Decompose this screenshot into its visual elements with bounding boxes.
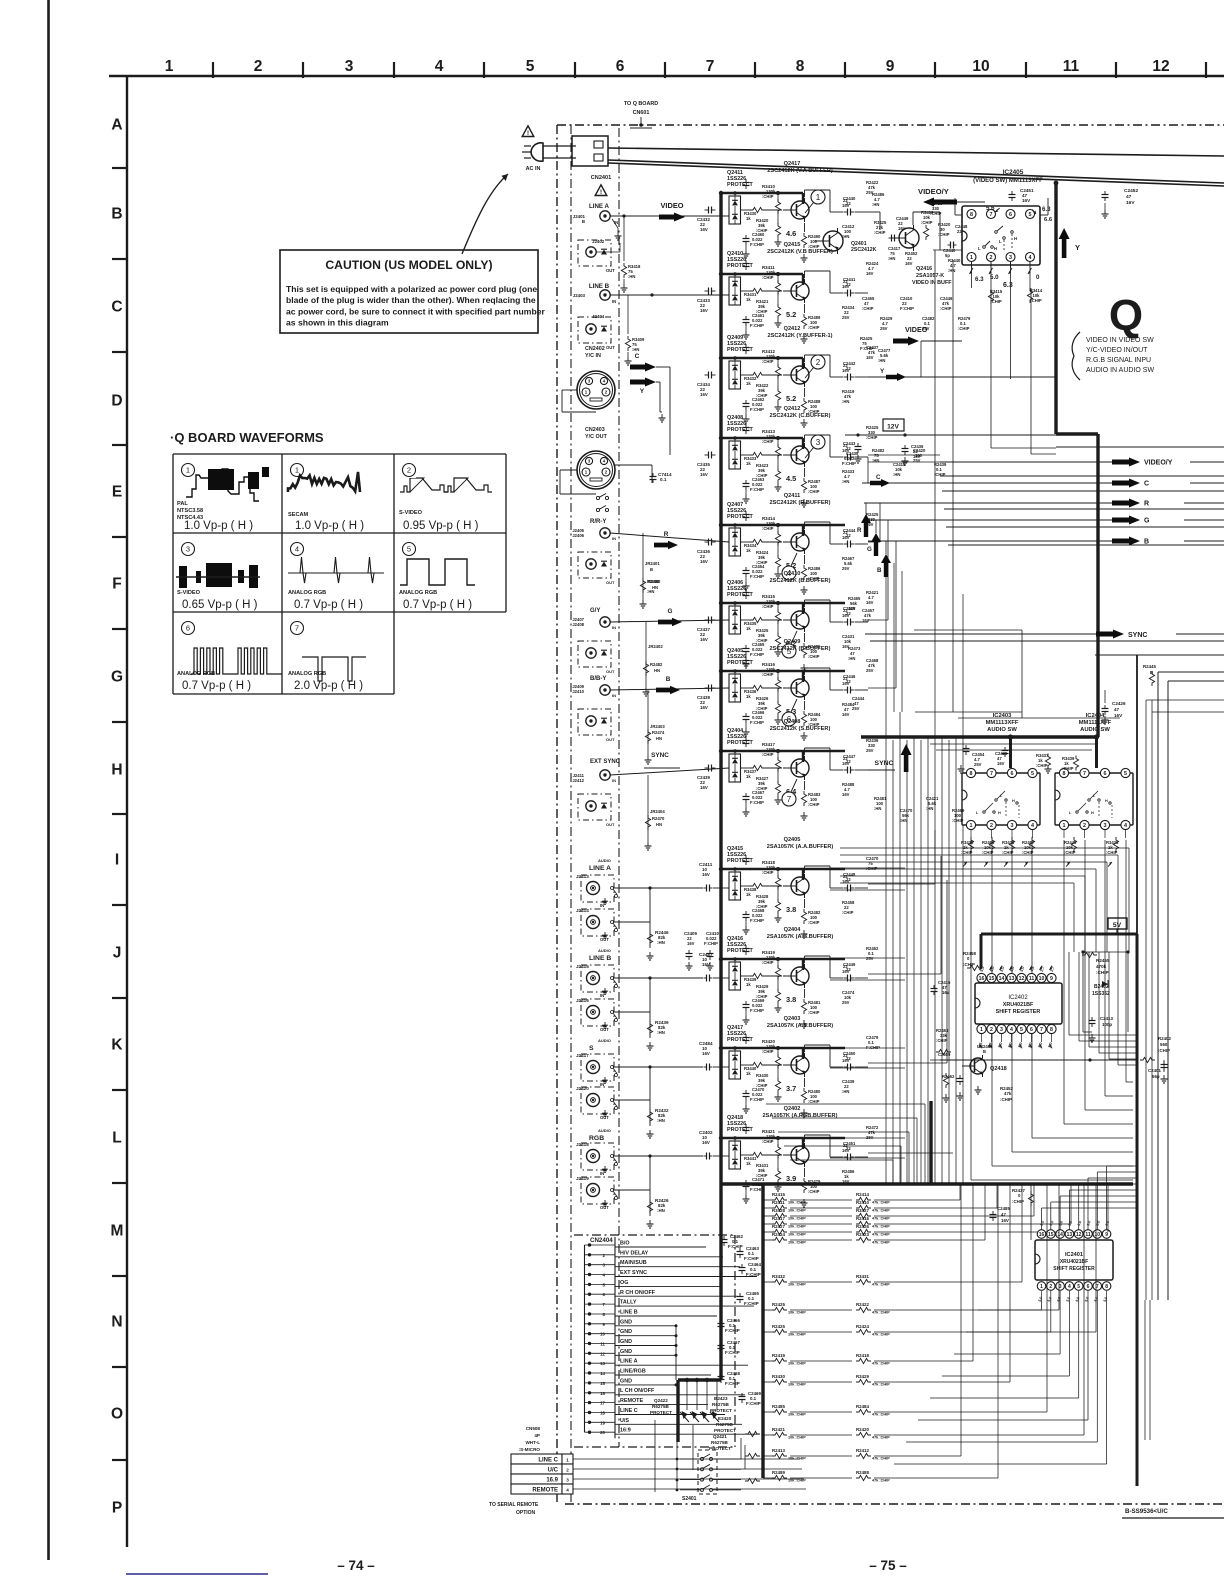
svg-text:16V: 16V bbox=[997, 761, 1005, 766]
svg-text:0.7 Vp-p ( H ): 0.7 Vp-p ( H ) bbox=[182, 680, 251, 692]
svg-text:1k: 1k bbox=[746, 548, 751, 553]
svg-text:H: H bbox=[111, 762, 122, 779]
svg-text:SHIFT REGISTER: SHIFT REGISTER bbox=[1053, 1266, 1095, 1272]
svg-text:F:CHIP: F:CHIP bbox=[866, 1045, 880, 1050]
svg-text:1k: 1k bbox=[746, 626, 751, 631]
svg-text:B: B bbox=[582, 219, 585, 224]
svg-text:25V: 25V bbox=[866, 748, 874, 753]
svg-text:R3429: R3429 bbox=[856, 1374, 869, 1379]
svg-text:0: 0 bbox=[1036, 274, 1040, 281]
svg-text:IN: IN bbox=[600, 993, 604, 998]
svg-text:H: H bbox=[1014, 236, 1017, 241]
svg-text:1: 1 bbox=[970, 255, 973, 261]
svg-text:F:CHIP: F:CHIP bbox=[750, 1008, 764, 1013]
svg-text:AUDIO: AUDIO bbox=[598, 948, 611, 953]
svg-text:R2420: R2420 bbox=[856, 1427, 869, 1432]
svg-text:1: 1 bbox=[585, 470, 588, 476]
svg-text:OG: OG bbox=[620, 1280, 628, 1286]
svg-text:12: 12 bbox=[1152, 58, 1169, 75]
svg-text:100p: 100p bbox=[1102, 1022, 1112, 1027]
svg-text:2SA1057K (A.A.BUFFER): 2SA1057K (A.A.BUFFER) bbox=[767, 844, 834, 850]
svg-text:1: 1 bbox=[970, 823, 973, 829]
svg-text:16V: 16V bbox=[700, 637, 708, 642]
svg-text:R2425: R2425 bbox=[772, 1324, 785, 1329]
svg-text:1: 1 bbox=[585, 390, 588, 396]
svg-text:16V: 16V bbox=[700, 472, 708, 477]
svg-text:R2417: R2417 bbox=[772, 1216, 785, 1221]
svg-text:!: ! bbox=[527, 130, 529, 137]
svg-text::HN: :HN bbox=[872, 458, 879, 463]
svg-text:4.6: 4.6 bbox=[786, 229, 796, 238]
svg-text:LINE C: LINE C bbox=[538, 1458, 558, 1464]
svg-text:LINE/RGB: LINE/RGB bbox=[620, 1369, 646, 1375]
svg-text:0.65 Vp-p ( H ): 0.65 Vp-p ( H ) bbox=[182, 599, 258, 611]
svg-text:6: 6 bbox=[1011, 771, 1014, 777]
svg-text:J2403: J2403 bbox=[573, 293, 586, 298]
svg-text:2SC2412K (Y.BUFFER-1): 2SC2412K (Y.BUFFER-1) bbox=[768, 333, 833, 339]
svg-text:10: 10 bbox=[972, 58, 989, 75]
svg-text:25V: 25V bbox=[922, 326, 930, 331]
svg-text:R2480: R2480 bbox=[648, 579, 661, 584]
svg-text:PROTECT: PROTECT bbox=[650, 1410, 672, 1415]
svg-text:25V: 25V bbox=[913, 458, 921, 463]
svg-text:R2488: R2488 bbox=[856, 1470, 869, 1475]
svg-text:R2482: R2482 bbox=[650, 662, 663, 667]
svg-text:2: 2 bbox=[990, 1027, 993, 1033]
svg-text:JR2403: JR2403 bbox=[650, 724, 665, 729]
svg-text:TO Q BOARD: TO Q BOARD bbox=[624, 101, 658, 107]
svg-text:Q2422: Q2422 bbox=[654, 1398, 668, 1403]
svg-text::HN: :HN bbox=[842, 479, 849, 484]
svg-text:16V: 16V bbox=[842, 1058, 850, 1063]
svg-text:R2424: R2424 bbox=[856, 1324, 869, 1329]
svg-text:OUT: OUT bbox=[606, 822, 615, 827]
svg-text:20: 20 bbox=[600, 1430, 605, 1435]
svg-text:17: 17 bbox=[600, 1401, 605, 1406]
svg-text::CHIP: :CHIP bbox=[808, 325, 820, 330]
svg-text:This set is equipped with a po: This set is equipped with a polarized ac… bbox=[286, 284, 537, 294]
svg-text:F:CHIP: F:CHIP bbox=[725, 1350, 740, 1355]
svg-text::CHIP: :CHIP bbox=[808, 1189, 820, 1194]
svg-text:R2426: R2426 bbox=[856, 1224, 869, 1229]
svg-text:15: 15 bbox=[600, 1381, 605, 1386]
svg-text::HN: :HN bbox=[926, 806, 933, 811]
svg-text:IC2402: IC2402 bbox=[1008, 995, 1028, 1001]
svg-text:7: 7 bbox=[990, 771, 993, 777]
svg-text:IN: IN bbox=[612, 299, 616, 304]
svg-text:R3428: R3428 bbox=[772, 1208, 785, 1213]
svg-text::HN: :HN bbox=[888, 256, 895, 261]
svg-text:2: 2 bbox=[566, 1468, 569, 1473]
svg-text:6: 6 bbox=[616, 58, 625, 75]
svg-text:R/R-Y: R/R-Y bbox=[590, 519, 606, 525]
svg-text:ANALOG RGB: ANALOG RGB bbox=[177, 671, 215, 677]
svg-text:10k :CHIP: 10k :CHIP bbox=[788, 1333, 806, 1337]
svg-text::CHIP: :CHIP bbox=[808, 802, 820, 807]
svg-text:OUT: OUT bbox=[600, 937, 609, 942]
svg-text::CHIP: :CHIP bbox=[930, 211, 942, 216]
svg-text:1k: 1k bbox=[746, 1161, 751, 1166]
svg-text:B: B bbox=[650, 567, 653, 572]
svg-text:2SC2412K (S.BUFFER): 2SC2412K (S.BUFFER) bbox=[770, 726, 831, 732]
svg-text::HN: :HN bbox=[842, 1089, 849, 1094]
svg-text:8: 8 bbox=[796, 58, 805, 75]
svg-text:25V: 25V bbox=[842, 1000, 850, 1005]
svg-text:OUT: OUT bbox=[600, 1027, 609, 1032]
svg-text:16: 16 bbox=[1039, 1232, 1045, 1238]
svg-text:16V: 16V bbox=[700, 785, 708, 790]
svg-text::CHIP: :CHIP bbox=[874, 230, 886, 235]
svg-text:OUT: OUT bbox=[606, 580, 615, 585]
svg-text:F:CHIP: F:CHIP bbox=[750, 652, 764, 657]
svg-text:R2458: R2458 bbox=[963, 951, 976, 956]
svg-text:8: 8 bbox=[1050, 1027, 1053, 1033]
svg-text:16V: 16V bbox=[842, 1179, 850, 1184]
svg-text:1: 1 bbox=[566, 1458, 569, 1463]
svg-text:F:CHIP: F:CHIP bbox=[725, 1328, 740, 1333]
svg-text::CHIP: :CHIP bbox=[762, 672, 774, 677]
svg-text:2: 2 bbox=[1083, 823, 1086, 829]
svg-text:12V: 12V bbox=[887, 424, 899, 431]
svg-text:1: 1 bbox=[295, 466, 299, 475]
svg-text::CHIP: :CHIP bbox=[1062, 766, 1074, 771]
svg-text:47: 47 bbox=[1001, 1212, 1006, 1217]
svg-text::CHIP: :CHIP bbox=[762, 870, 774, 875]
svg-text:OUT: OUT bbox=[600, 1205, 609, 1210]
svg-text:Y/C OUT: Y/C OUT bbox=[585, 434, 608, 440]
svg-text:S-VIDEO: S-VIDEO bbox=[399, 510, 423, 516]
svg-text:10k :CHIP: 10k :CHIP bbox=[788, 1233, 806, 1237]
svg-text:1k: 1k bbox=[746, 461, 751, 466]
svg-text:F:CHIP: F:CHIP bbox=[746, 1401, 761, 1406]
svg-text:Q2409: Q2409 bbox=[784, 639, 801, 645]
svg-text::CHIP: :CHIP bbox=[762, 194, 774, 199]
svg-text:2: 2 bbox=[605, 390, 608, 396]
svg-text:I: I bbox=[115, 852, 119, 869]
svg-text:2SC2412K: 2SC2412K bbox=[851, 247, 877, 253]
svg-text:4: 4 bbox=[1124, 823, 1127, 829]
svg-text:47k :CHIP: 47k :CHIP bbox=[872, 1201, 890, 1205]
svg-text:47k :CHIP: 47k :CHIP bbox=[872, 1209, 890, 1213]
svg-text:Q2418: Q2418 bbox=[990, 1066, 1007, 1072]
svg-text:47k :CHIP: 47k :CHIP bbox=[872, 1241, 890, 1245]
svg-text:Q2412: Q2412 bbox=[784, 326, 801, 332]
svg-text:47: 47 bbox=[1114, 707, 1120, 712]
svg-text:10k :CHIP: 10k :CHIP bbox=[788, 1217, 806, 1221]
svg-text:3.9: 3.9 bbox=[786, 1174, 796, 1183]
svg-text:16V: 16V bbox=[1001, 1218, 1009, 1223]
svg-text:6.6: 6.6 bbox=[1044, 217, 1053, 223]
svg-text:ac power cord, be sure to conn: ac power cord, be sure to connect it wit… bbox=[286, 306, 545, 316]
svg-text:·Q BOARD WAVEFORMS: ·Q BOARD WAVEFORMS bbox=[170, 430, 324, 445]
svg-text:R2462: R2462 bbox=[942, 1074, 955, 1079]
svg-text:J2408: J2408 bbox=[572, 622, 584, 627]
svg-text:LINE B: LINE B bbox=[589, 283, 610, 290]
svg-text:HN: HN bbox=[654, 668, 660, 673]
svg-text:R2474: R2474 bbox=[652, 730, 665, 735]
svg-text:25V: 25V bbox=[880, 326, 888, 331]
svg-text:H: H bbox=[1012, 799, 1015, 803]
svg-text:8: 8 bbox=[970, 771, 973, 777]
svg-text:16V: 16V bbox=[898, 226, 906, 231]
svg-text:D: D bbox=[111, 393, 122, 410]
svg-text:2: 2 bbox=[990, 823, 993, 829]
svg-text:5.2: 5.2 bbox=[786, 310, 796, 319]
svg-text:0.7 Vp-p ( H ): 0.7 Vp-p ( H ) bbox=[294, 599, 363, 611]
svg-text:S: S bbox=[589, 1045, 594, 1052]
svg-text:11: 11 bbox=[600, 1342, 605, 1347]
svg-text:F:CHIP: F:CHIP bbox=[900, 306, 914, 311]
svg-text::HN: :HN bbox=[848, 656, 855, 661]
svg-text:1k: 1k bbox=[746, 297, 751, 302]
svg-text:F:CHIP: F:CHIP bbox=[750, 800, 764, 805]
svg-text:Q2410: Q2410 bbox=[784, 571, 801, 577]
svg-text:RGB: RGB bbox=[589, 1135, 604, 1142]
svg-text:4: 4 bbox=[1029, 255, 1032, 261]
svg-text:12: 12 bbox=[600, 1351, 605, 1356]
svg-text:25V: 25V bbox=[866, 1135, 874, 1140]
svg-text:16V: 16V bbox=[702, 1140, 710, 1145]
svg-text::HN: :HN bbox=[657, 940, 665, 945]
svg-text:1k: 1k bbox=[746, 1071, 751, 1076]
svg-text:16V: 16V bbox=[702, 1051, 710, 1056]
svg-text:2SA1057-K: 2SA1057-K bbox=[916, 273, 944, 279]
svg-text::HN: :HN bbox=[900, 818, 907, 823]
svg-text:IC2405: IC2405 bbox=[1003, 169, 1024, 176]
svg-text:1k: 1k bbox=[746, 982, 751, 987]
svg-text:GND: GND bbox=[620, 1329, 632, 1335]
svg-text::CHIP: :CHIP bbox=[762, 439, 774, 444]
svg-text:PROTECT: PROTECT bbox=[710, 1408, 732, 1413]
svg-text:5.2: 5.2 bbox=[786, 394, 796, 403]
svg-text:AUDIO: AUDIO bbox=[598, 1128, 611, 1133]
svg-text:R2413: R2413 bbox=[772, 1448, 785, 1453]
svg-text:16: 16 bbox=[979, 976, 985, 982]
svg-text:MM1111XFF: MM1111XFF bbox=[1079, 720, 1112, 726]
svg-text:10k :CHIP: 10k :CHIP bbox=[788, 1209, 806, 1213]
svg-text:MM1113XFF: MM1113XFF bbox=[986, 720, 1019, 726]
svg-text:11: 11 bbox=[1029, 976, 1035, 982]
svg-text::CHIP: :CHIP bbox=[762, 1139, 774, 1144]
svg-text:!: ! bbox=[600, 189, 602, 196]
svg-text:22: 22 bbox=[957, 229, 962, 234]
svg-text:GND: GND bbox=[620, 1349, 632, 1355]
svg-text:S-VIDEO: S-VIDEO bbox=[177, 590, 201, 596]
svg-text:Q2404: Q2404 bbox=[784, 927, 802, 933]
svg-text:F:CHIP: F:CHIP bbox=[728, 1244, 743, 1249]
svg-text:47k :CHIP: 47k :CHIP bbox=[872, 1479, 890, 1483]
svg-text:13: 13 bbox=[600, 1361, 605, 1366]
svg-text:3: 3 bbox=[1000, 1027, 1003, 1033]
svg-text:F:CHIP: F:CHIP bbox=[704, 941, 718, 946]
svg-text:R6275B: R6275B bbox=[711, 1440, 729, 1445]
svg-text:IN: IN bbox=[612, 536, 616, 541]
svg-text:CN2401: CN2401 bbox=[591, 175, 612, 181]
svg-text:1: 1 bbox=[980, 1027, 983, 1033]
svg-text:6: 6 bbox=[1030, 1027, 1033, 1033]
svg-text:MAIN/SUB: MAIN/SUB bbox=[620, 1260, 647, 1266]
svg-text:3: 3 bbox=[1009, 255, 1012, 261]
svg-text:B: B bbox=[111, 206, 122, 223]
svg-text:G: G bbox=[867, 546, 872, 553]
svg-text:LINE B: LINE B bbox=[589, 955, 611, 962]
svg-text:0.95 Vp-p ( H ): 0.95 Vp-p ( H ) bbox=[403, 520, 479, 532]
svg-text:L: L bbox=[999, 239, 1002, 244]
svg-text:Q2405: Q2405 bbox=[784, 837, 801, 843]
svg-text:M: M bbox=[111, 1223, 124, 1240]
svg-text:– 75 –: – 75 – bbox=[869, 1558, 907, 1573]
svg-text:G: G bbox=[1144, 518, 1150, 525]
svg-text:2SC2412K (B.BUFFER): 2SC2412K (B.BUFFER) bbox=[770, 578, 831, 584]
svg-text:15: 15 bbox=[989, 976, 995, 982]
svg-text::CHIP: :CHIP bbox=[808, 654, 820, 659]
svg-text:4.5: 4.5 bbox=[786, 474, 796, 483]
svg-text:F: F bbox=[112, 576, 121, 593]
svg-text:F:CHIP: F:CHIP bbox=[750, 407, 764, 412]
svg-text:11: 11 bbox=[1063, 58, 1080, 75]
svg-text:VIDEO/Y: VIDEO/Y bbox=[918, 187, 949, 196]
svg-text:8: 8 bbox=[1105, 1284, 1108, 1290]
svg-text:2SC2412K (B.BUFFER): 2SC2412K (B.BUFFER) bbox=[770, 646, 831, 652]
svg-text:LINE A: LINE A bbox=[589, 203, 610, 210]
svg-text:5: 5 bbox=[1077, 1284, 1080, 1290]
svg-text:19: 19 bbox=[600, 1420, 605, 1425]
svg-text:6.3: 6.3 bbox=[1003, 282, 1013, 289]
svg-text:H: H bbox=[994, 246, 997, 251]
svg-text:R.G.B SIGNAL INPU: R.G.B SIGNAL INPU bbox=[1086, 357, 1151, 364]
svg-text::HN: :HN bbox=[657, 1030, 665, 1035]
svg-text:10k :CHIP: 10k :CHIP bbox=[788, 1383, 806, 1387]
svg-text:8: 8 bbox=[1063, 771, 1066, 777]
svg-text:5: 5 bbox=[1020, 1027, 1023, 1033]
svg-text:16.9: 16.9 bbox=[546, 1478, 558, 1484]
svg-text:R: R bbox=[664, 531, 669, 538]
svg-text:JR2402: JR2402 bbox=[648, 644, 663, 649]
svg-text:R: R bbox=[1144, 501, 1149, 508]
svg-text:R2424: R2424 bbox=[772, 1232, 785, 1237]
svg-text:3: 3 bbox=[1104, 823, 1107, 829]
svg-text:0.1: 0.1 bbox=[660, 477, 667, 482]
svg-text:5: 5 bbox=[1031, 771, 1034, 777]
svg-text:TO SERIAL REMOTE: TO SERIAL REMOTE bbox=[489, 1502, 539, 1508]
svg-text:F:CHIP: F:CHIP bbox=[750, 1097, 764, 1102]
svg-text::CHIP: :CHIP bbox=[762, 275, 774, 280]
svg-text::HN: :HN bbox=[628, 274, 635, 279]
svg-text:R6275B: R6275B bbox=[652, 1404, 670, 1409]
svg-text:14: 14 bbox=[600, 1371, 605, 1376]
svg-text:R2419: R2419 bbox=[772, 1353, 785, 1358]
svg-text:10k :CHIP: 10k :CHIP bbox=[788, 1436, 806, 1440]
svg-text:47k :CHIP: 47k :CHIP bbox=[872, 1333, 890, 1337]
svg-text:2: 2 bbox=[1049, 1284, 1052, 1290]
svg-text:10k :CHIP: 10k :CHIP bbox=[788, 1241, 806, 1245]
svg-text:47k :CHIP: 47k :CHIP bbox=[872, 1217, 890, 1221]
svg-text:AC IN: AC IN bbox=[526, 166, 541, 172]
svg-text:7: 7 bbox=[787, 795, 792, 804]
svg-text::S-MICRO: :S-MICRO bbox=[519, 1447, 541, 1452]
svg-text:R2455: R2455 bbox=[1096, 958, 1110, 963]
svg-text:B2402: B2402 bbox=[1094, 984, 1109, 990]
svg-text:IN: IN bbox=[612, 693, 616, 698]
svg-text:K: K bbox=[111, 1037, 123, 1054]
svg-text:CN2403: CN2403 bbox=[585, 427, 605, 433]
svg-text:J2410: J2410 bbox=[572, 689, 584, 694]
svg-text:R2489: R2489 bbox=[772, 1470, 785, 1475]
svg-text:11: 11 bbox=[1085, 1232, 1091, 1238]
svg-text:16V: 16V bbox=[842, 203, 850, 208]
svg-text:56p: 56p bbox=[1152, 1074, 1160, 1079]
svg-text:R6275B: R6275B bbox=[712, 1402, 730, 1407]
svg-text:PROTECT: PROTECT bbox=[714, 1428, 736, 1433]
svg-text:F:CHIP: F:CHIP bbox=[750, 242, 764, 247]
svg-text:R2414: R2414 bbox=[856, 1192, 869, 1197]
svg-text:16V: 16V bbox=[700, 392, 708, 397]
svg-text:OUT: OUT bbox=[606, 669, 615, 674]
svg-text:6: 6 bbox=[186, 624, 190, 633]
svg-text:16V: 16V bbox=[687, 941, 695, 946]
svg-text:3: 3 bbox=[566, 1478, 569, 1483]
svg-text:GND: GND bbox=[620, 1339, 632, 1345]
svg-text::HN: :HN bbox=[874, 806, 881, 811]
svg-text:R2422: R2422 bbox=[856, 1302, 869, 1307]
svg-text:25V: 25V bbox=[866, 522, 874, 527]
svg-text:R2484: R2484 bbox=[856, 1404, 869, 1409]
svg-text:F:CHIP: F:CHIP bbox=[744, 1301, 759, 1306]
svg-text::CHIP: :CHIP bbox=[934, 472, 946, 477]
svg-text:GND: GND bbox=[620, 1319, 632, 1325]
svg-text:10k :CHIP: 10k :CHIP bbox=[788, 1201, 806, 1205]
svg-text:C: C bbox=[635, 353, 640, 360]
svg-text:AUDIO: AUDIO bbox=[598, 858, 611, 863]
svg-text:OUT: OUT bbox=[606, 345, 615, 350]
svg-text:E: E bbox=[112, 484, 122, 501]
svg-text:2SC2412K (V.A BUFFER): 2SC2412K (V.A BUFFER) bbox=[767, 168, 833, 174]
svg-text:R2423: R2423 bbox=[856, 1232, 869, 1237]
svg-text:GND: GND bbox=[620, 1378, 632, 1384]
svg-text:4: 4 bbox=[435, 58, 444, 75]
svg-text:16V: 16V bbox=[842, 535, 850, 540]
svg-text:16V: 16V bbox=[700, 308, 708, 313]
svg-text:3.8: 3.8 bbox=[786, 905, 796, 914]
svg-text:R2427: R2427 bbox=[772, 1224, 785, 1229]
svg-text::CHIP: :CHIP bbox=[762, 604, 774, 609]
svg-text:CN2402: CN2402 bbox=[585, 346, 605, 352]
svg-text:4: 4 bbox=[295, 545, 299, 554]
svg-text:3.8: 3.8 bbox=[786, 995, 796, 1004]
svg-text:IN: IN bbox=[600, 903, 604, 908]
svg-text:HN: HN bbox=[656, 822, 662, 827]
svg-text:F:CHIP: F:CHIP bbox=[750, 574, 764, 579]
svg-text:15: 15 bbox=[1048, 1232, 1054, 1238]
svg-text:AUDIO IN AUDIO SW: AUDIO IN AUDIO SW bbox=[1086, 367, 1154, 374]
svg-text:R3427: R3427 bbox=[856, 1208, 869, 1213]
svg-text::CHIP: :CHIP bbox=[808, 489, 820, 494]
svg-text:P: P bbox=[112, 1500, 122, 1517]
svg-text:REMOTE: REMOTE bbox=[532, 1488, 558, 1494]
svg-text:18: 18 bbox=[600, 1411, 605, 1416]
svg-text:as shown in this diagram: as shown in this diagram bbox=[286, 318, 389, 328]
svg-text:16V: 16V bbox=[842, 284, 850, 289]
svg-text:47k :CHIP: 47k :CHIP bbox=[872, 1413, 890, 1417]
svg-text:B/O: B/O bbox=[620, 1241, 630, 1247]
svg-text:CN601: CN601 bbox=[633, 110, 650, 116]
svg-text::CHIP: :CHIP bbox=[921, 220, 933, 225]
svg-text:6.3: 6.3 bbox=[975, 276, 984, 283]
svg-text:16V: 16V bbox=[866, 600, 874, 605]
svg-text:8: 8 bbox=[970, 212, 973, 218]
svg-text:REMOTE: REMOTE bbox=[620, 1398, 643, 1404]
svg-text:25V: 25V bbox=[974, 762, 982, 767]
